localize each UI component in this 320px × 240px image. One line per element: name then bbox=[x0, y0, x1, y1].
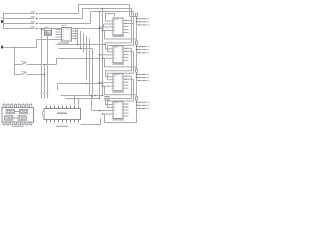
junction bbox=[41, 29, 43, 31]
pin U3 bottom 5 bbox=[62, 120, 64, 123]
label U3 bot num 7 bbox=[70, 123, 71, 124]
label U1 bot num 5 bbox=[19, 125, 21, 126]
wire R2 left bbox=[42, 29, 45, 31]
led arrow block2.3 bbox=[137, 52, 149, 54]
pin U3 bottom 4 bbox=[58, 120, 60, 123]
wire vert x44 bbox=[44, 65, 46, 99]
junction bbox=[14, 47, 15, 48]
cell U1 1 bbox=[6, 109, 14, 113]
label U3 top num 9 bbox=[78, 104, 79, 105]
junction bbox=[99, 98, 100, 99]
junction bbox=[86, 83, 87, 84]
wire U2 right pin 4 bbox=[72, 35, 78, 37]
label U3 bot num 9 bbox=[78, 123, 79, 124]
pin U3 bottom 3 bbox=[54, 120, 56, 123]
wire vert x92.5 bbox=[92, 49, 94, 99]
pin U1 top 2 bbox=[7, 105, 9, 108]
ic U4 74HC595 block 1 bbox=[99, 18, 134, 37]
pin U1 bottom 5 bbox=[18, 122, 20, 125]
label U2 internal bbox=[65, 28, 69, 29]
label U1 top num 3 bbox=[11, 103, 13, 104]
wire horiz y83.5 bbox=[58, 83, 103, 85]
net-flag arrow D2 bbox=[36, 23, 39, 25]
label U3 bot num 8 bbox=[74, 123, 75, 124]
node J2 terminal bbox=[1, 45, 3, 48]
net-flag arrow D1 bbox=[36, 18, 39, 20]
junction bbox=[102, 83, 103, 84]
pin U3 bottom 6 bbox=[66, 120, 68, 123]
pin U3 bottom 9 bbox=[78, 120, 80, 123]
pin U3 bottom 2 bbox=[50, 120, 52, 123]
label U1 top num 5 bbox=[19, 103, 21, 104]
wire bus line3 route bbox=[39, 23, 91, 25]
label U3 bot num 6 bbox=[66, 123, 67, 124]
pin U1 top 1 bbox=[3, 105, 5, 108]
label U1 top num 2 bbox=[7, 103, 9, 104]
resistor RN3 bbox=[136, 67, 138, 81]
pin U3 bottom 8 bbox=[74, 120, 76, 123]
led arrow block3.2 bbox=[137, 77, 149, 79]
junction bbox=[102, 95, 103, 96]
label U1 bot num 3 bbox=[11, 125, 13, 126]
wire block1 bottom bbox=[105, 25, 137, 39]
pin U1 bottom 1 bbox=[3, 122, 5, 125]
pin U3 top 9 bbox=[78, 106, 80, 109]
wire vert x41 bbox=[41, 30, 43, 99]
wire U2 out vert 1 bbox=[77, 29, 79, 45]
wire from J2 bbox=[3, 47, 37, 49]
pin U3 top 7 bbox=[70, 106, 72, 109]
led arrow block4.1 bbox=[137, 101, 149, 103]
pin U1 top 6 bbox=[22, 105, 24, 108]
label U3 name bbox=[57, 113, 67, 115]
led arrow block4.2 bbox=[137, 104, 149, 106]
wire vertical bus B bbox=[102, 9, 104, 96]
wire bus line4 route bbox=[39, 28, 104, 30]
label net D1 bbox=[31, 16, 35, 17]
label U1 top num 7 bbox=[26, 103, 28, 104]
wire input line 2 bbox=[4, 18, 35, 20]
pin U1 bottom 4 bbox=[14, 122, 16, 125]
wire input line 3 bbox=[4, 23, 35, 25]
wire horiz y44.5 bbox=[56, 44, 105, 46]
pin U3 top 4 bbox=[58, 106, 60, 109]
led arrow block3.1 bbox=[137, 74, 149, 76]
pin U1 top 8 bbox=[30, 105, 32, 108]
wire U1 traces bbox=[14, 111, 19, 113]
wire input line 4 bbox=[4, 28, 35, 30]
junction bbox=[44, 74, 45, 75]
label U1 bot num 4 bbox=[15, 125, 17, 126]
label R2 value bbox=[44, 27, 48, 28]
cell U1 3 bbox=[5, 116, 13, 120]
resistor R3 bbox=[45, 31, 52, 33]
label net b bbox=[43, 93, 45, 94]
resistor RN2 bbox=[136, 39, 138, 53]
pin U3 top 8 bbox=[74, 106, 76, 109]
pin U3 bottom 7 bbox=[70, 120, 72, 123]
led arrow block2.2 bbox=[137, 49, 149, 51]
cell U1 2 bbox=[20, 109, 28, 113]
wire horiz y98.5 bbox=[66, 98, 100, 100]
wire U2 out vert 2 bbox=[80, 31, 82, 49]
wire horiz y95.5 bbox=[61, 95, 103, 97]
pin U1 top 3 bbox=[11, 105, 13, 108]
net-flag arrow D0 bbox=[36, 13, 39, 15]
ic U5 74HC595 block 2 bbox=[99, 21, 134, 65]
pin U1 top 4 bbox=[14, 105, 16, 108]
pin U3 top 1 bbox=[46, 106, 48, 109]
junction bbox=[44, 64, 45, 65]
wire U2 out vert 5 bbox=[89, 39, 91, 96]
wire input bus vertical bbox=[3, 13, 5, 29]
led arrow block4.3 bbox=[137, 108, 149, 110]
label U2 value bbox=[58, 42, 69, 43]
label U3 value bbox=[56, 126, 68, 127]
label net a bbox=[40, 93, 42, 94]
label U1 top num 1 bbox=[3, 103, 5, 104]
ic U1 body bbox=[2, 108, 34, 123]
wire block1 pin1 loop bbox=[105, 14, 107, 22]
wire vert DIPpin8 bbox=[74, 96, 76, 106]
pin U3 top 2 bbox=[50, 106, 52, 109]
wire bottom long bbox=[81, 124, 101, 126]
wire U2 right pin 3 bbox=[72, 33, 78, 35]
pin U3 bottom 1 bbox=[46, 120, 48, 123]
wire U2 left pin 2 bbox=[56, 31, 62, 33]
wire U2 left pin 3 bbox=[56, 34, 62, 36]
junction bbox=[104, 44, 105, 45]
label U3 top num 8 bbox=[74, 104, 75, 105]
pin U3 top 5 bbox=[62, 106, 64, 109]
wire U2 right pin 2 bbox=[72, 30, 78, 32]
led arrow block3.3 bbox=[137, 80, 149, 82]
label U3 bot num 3 bbox=[54, 123, 55, 124]
wire R3 left bbox=[45, 31, 48, 33]
label U1 bot num 8 bbox=[30, 125, 32, 126]
label U3 top num 1 bbox=[46, 104, 47, 105]
wire vert DIPpin9 bbox=[78, 99, 80, 106]
wire block3 bottom bbox=[105, 81, 137, 95]
led arrow block1.2 bbox=[137, 21, 149, 23]
wire U2 left pin 1 bbox=[56, 29, 62, 31]
pin U1 bottom 6 bbox=[22, 122, 24, 125]
led arrow block1.1 bbox=[137, 18, 149, 20]
label U3 bot num 4 bbox=[58, 123, 59, 124]
wire S1 route bbox=[56, 59, 58, 65]
label U1 bot num 7 bbox=[26, 125, 28, 126]
label U3 top num 5 bbox=[62, 104, 63, 105]
node J1 input terminal bbox=[1, 20, 3, 23]
label U1 bot num 1 bbox=[3, 125, 5, 126]
junction bus bbox=[99, 28, 101, 30]
ic U7 74HC595 block 4 bbox=[99, 76, 134, 120]
wire U2 out vert 3 bbox=[83, 34, 85, 53]
junction bbox=[80, 48, 81, 49]
label U1 bot num 2 bbox=[7, 125, 9, 126]
led arrow block2.1 bbox=[137, 46, 149, 48]
cell U1 4 bbox=[18, 116, 26, 120]
label U3 bot num 2 bbox=[50, 123, 51, 124]
pin U1 bottom 7 bbox=[26, 122, 28, 125]
wire U2 left pin 4 bbox=[56, 36, 62, 38]
label U3 top num 6 bbox=[66, 104, 67, 105]
wire R4 left bbox=[45, 34, 52, 36]
label U3 bot num 1 bbox=[46, 123, 47, 124]
label U1 top num 8 bbox=[30, 103, 32, 104]
label U1 bot num 6 bbox=[22, 125, 24, 126]
wire J2 up link bbox=[36, 40, 38, 48]
label U2 ref bbox=[62, 25, 67, 26]
junction bbox=[99, 58, 100, 59]
label U3 top num 7 bbox=[70, 104, 71, 105]
led arrow block1.3 bbox=[137, 24, 149, 26]
label U3 top num 2 bbox=[50, 104, 51, 105]
junction bus A top bbox=[99, 11, 100, 12]
resistor RN4 bbox=[136, 95, 138, 109]
resistor RN1 bbox=[136, 13, 138, 25]
label U1 top num 4 bbox=[15, 103, 17, 104]
pin U1 bottom 2 bbox=[7, 122, 9, 125]
wire vert x47 bbox=[47, 34, 49, 99]
label net c bbox=[46, 93, 48, 94]
wire vert x14.5 bbox=[14, 48, 16, 75]
wire U2 right pin 5 bbox=[72, 38, 78, 40]
label net D2 bbox=[31, 21, 35, 22]
pin U1 top 5 bbox=[18, 105, 20, 108]
junction bbox=[77, 44, 79, 46]
pin U3 top 6 bbox=[66, 106, 68, 109]
label U3 top num 3 bbox=[54, 104, 55, 105]
label U3 top num 4 bbox=[58, 104, 59, 105]
label U1 top num 6 bbox=[22, 103, 24, 104]
switch S2 bbox=[15, 74, 22, 76]
wire U2 right pin 1 bbox=[72, 28, 78, 30]
ic U3 body bbox=[44, 109, 81, 120]
label net D0 bbox=[31, 11, 35, 12]
wire bus line1 route bbox=[39, 13, 79, 15]
ic U2 body bbox=[62, 28, 72, 42]
pin U1 bottom 8 bbox=[30, 122, 32, 125]
wire vertical bus A bbox=[99, 12, 101, 99]
wire input line 1 bbox=[4, 13, 35, 15]
label U1 value bbox=[12, 126, 23, 127]
ic U6 74HC595 block 3 bbox=[99, 48, 134, 92]
label U3 bot num 5 bbox=[62, 123, 63, 124]
junction bbox=[95, 95, 96, 96]
resistor R4 bbox=[45, 33, 52, 35]
pin U3 top 3 bbox=[54, 106, 56, 109]
wire horiz y48.5 bbox=[59, 48, 93, 50]
label net D3 bbox=[31, 26, 35, 27]
wire block2 bottom bbox=[105, 53, 137, 67]
pin U1 top 7 bbox=[26, 105, 28, 108]
component C1 box bbox=[105, 97, 109, 101]
junction bus B top bbox=[102, 8, 103, 9]
wire bus line2 route bbox=[39, 18, 83, 20]
net-flag arrow D3 bbox=[36, 28, 39, 30]
wire block4 bottom bbox=[105, 109, 137, 123]
resistor R2 bbox=[45, 28, 52, 30]
wire U2 left pin 5 bbox=[56, 39, 62, 41]
wire U2 out vert 4 bbox=[86, 36, 88, 80]
wire vert x91 low bbox=[91, 96, 93, 111]
switch S1 bbox=[15, 64, 22, 66]
pin U1 bottom 3 bbox=[11, 122, 13, 125]
